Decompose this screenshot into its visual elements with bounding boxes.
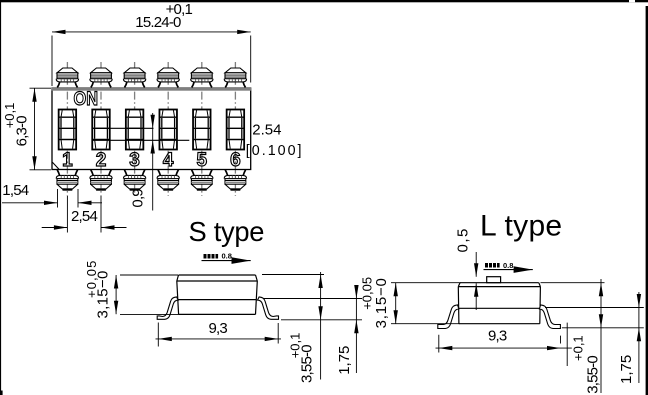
L dimension 9,3 [436,323,572,366]
svg-text:1,75: 1,75 [336,346,353,375]
L left gull-wing lead [438,305,459,329]
svg-text:L type: L type [480,210,562,243]
S dimension 3,55 right [288,272,323,383]
pitch label 2.54 [0.100] [246,122,304,160]
switch slider 2 [92,110,110,150]
S type package body [177,275,257,314]
svg-text:+0,1: +0,1 [2,103,17,129]
position numbers 1-6 [62,150,241,171]
pin 5 top lead [191,68,213,88]
svg-text:ON: ON [74,89,99,110]
pin 12 bottom lead [224,170,246,190]
L type package body [458,277,540,324]
pin 11 bottom lead [191,170,213,190]
S dimension 9,3 [156,320,282,347]
dimension 2,54 [42,196,127,233]
L roughness mark 0.8 [484,261,533,273]
svg-text:+0,1: +0,1 [166,1,193,18]
switch slider 3 [126,110,144,150]
L dimension 3,15 left [360,277,461,329]
dimension 0,9 [129,113,155,211]
DIP switch body outline [51,87,251,169]
S roughness mark 0.8 [202,252,251,264]
svg-text:1,75: 1,75 [618,355,635,384]
svg-text:2.54: 2.54 [252,122,281,139]
pin 2 top lead [90,68,112,88]
pin 9 bottom lead [123,170,145,190]
svg-text:[0.100]: [0.100] [246,143,304,159]
svg-text:0,5: 0,5 [455,227,472,252]
svg-text:0,9: 0,9 [129,189,146,208]
switch slider 6 [227,110,245,150]
svg-text:+0,1: +0,1 [571,335,586,361]
L right gull-wing lead [539,305,560,329]
S left gull-wing lead [157,297,178,319]
dimension 6,3 left [2,88,51,170]
L dimension 3,55 right [571,279,604,394]
svg-text:+0,1: +0,1 [288,333,303,359]
S right gull-wing lead [258,297,279,319]
svg-text:0.8: 0.8 [222,252,232,261]
L right extension lines [541,283,644,328]
body corner chamfer [52,162,59,169]
svg-text:1,54: 1,54 [2,182,28,199]
S dimension 1,75 right [336,285,359,375]
dimension 15.24 top [52,1,251,86]
svg-text:2: 2 [96,150,107,171]
svg-text:9,3: 9,3 [209,320,228,337]
switch slider 1 [59,110,77,150]
svg-text:S type: S type [189,216,265,247]
svg-text:0.8: 0.8 [503,261,513,270]
pin 7 bottom lead [56,170,78,190]
svg-text:4: 4 [163,150,174,171]
dimension 1,54 [2,182,102,208]
svg-text:3,55-0: 3,55-0 [584,356,601,394]
switch slider 5 [193,110,211,150]
S right extension lines [262,275,362,320]
pin 3 top lead [123,68,145,88]
S dimension 3,15 left [84,260,179,319]
L dimension 0,5 [455,227,479,310]
svg-text:3: 3 [129,150,140,171]
svg-text:5: 5 [197,150,208,171]
svg-text:2,54: 2,54 [71,208,97,225]
dimension 0,9 extension lines [93,128,190,140]
pin 1 top lead [56,68,78,88]
switch slider 4 [159,110,177,150]
pin 4 top lead [157,68,179,88]
svg-text:1: 1 [62,150,73,171]
svg-text:6: 6 [230,150,241,171]
L dimension 1,75 right [618,292,641,384]
svg-text:+0,05: +0,05 [360,277,375,310]
svg-text:+0,05: +0,05 [84,260,99,298]
pin 8 bottom lead [90,170,112,190]
pin 10 bottom lead [157,170,179,190]
svg-text:9,3: 9,3 [488,328,507,345]
pin 6 top lead [224,68,246,88]
svg-text:3,15−0: 3,15−0 [373,277,390,328]
pin centerlines (dash-dot) [67,62,235,196]
